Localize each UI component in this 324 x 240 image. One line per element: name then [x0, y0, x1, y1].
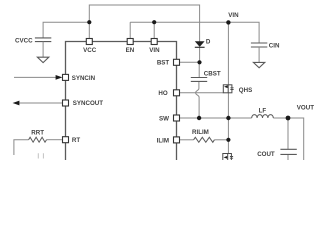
svg-text:SYNCIN: SYNCIN — [72, 75, 96, 82]
pin EN — [127, 39, 133, 45]
wire: EN-VIN input rail to CIN — [130, 22, 259, 43]
wire: VCC rail riser and top rail to diode — [89, 5, 199, 42]
inductor LF — [252, 115, 274, 118]
pin BST — [174, 59, 180, 65]
wire: VCC pin stub — [88, 22, 90, 38]
node: VIN pin junction — [152, 20, 156, 24]
faint strokes bottom-left (cut-off component) — [38, 153, 43, 158]
pin VCC — [86, 39, 92, 45]
node: VOUT — [286, 116, 291, 121]
wire: HO pin to QHS gate — [180, 92, 224, 94]
svg-text:VOUT: VOUT — [297, 104, 314, 111]
pin SYNCOUT — [63, 100, 69, 106]
capacitor CVCC — [35, 38, 51, 57]
wire: COUT bottom down — [287, 154, 289, 160]
wire: QHS source down to SW rail — [227, 93, 229, 118]
pin HO — [174, 90, 180, 96]
wire: inductor out to VOUT corner, down right edge — [273, 118, 303, 160]
svg-text:CBST: CBST — [204, 71, 221, 78]
IC U1 body outline — [66, 42, 177, 161]
wire: SW rail from pin to inductor — [180, 117, 252, 119]
wire: SYNCOUT output line — [19, 102, 62, 104]
resistor RRT — [29, 137, 47, 142]
svg-text:VCC: VCC — [83, 47, 97, 54]
node: BST — [197, 60, 201, 64]
wire: diode cathode to BST node — [199, 47, 201, 62]
svg-text:SYNCOUT: SYNCOUT — [73, 100, 103, 107]
wire: RRT left end down — [14, 140, 29, 155]
wire: BST pin to node — [180, 61, 200, 63]
wire: BST node down to CBST — [198, 62, 200, 77]
wire: RT pin to RRT — [47, 139, 62, 141]
capacitor COUT — [280, 149, 296, 154]
svg-text:RRT: RRT — [31, 129, 44, 136]
svg-text:RILIM: RILIM — [192, 129, 209, 136]
wire: CVCC top to VCC junction rail — [43, 22, 89, 38]
wire: SW rail down to QLS drain — [227, 118, 229, 154]
node: QHS source/SW — [226, 116, 230, 120]
wire: CBST bottom with hop over HO wire down to SW rail — [196, 81, 200, 118]
svg-text:LF: LF — [259, 107, 267, 114]
svg-text:HO: HO — [158, 90, 167, 97]
pin RT — [63, 137, 69, 143]
capacitor CBST — [191, 78, 207, 82]
svg-text:CVCC: CVCC — [15, 37, 33, 44]
svg-text:VIN: VIN — [149, 47, 160, 54]
arrowhead into SYNCIN — [56, 75, 63, 80]
wire: EN stub — [129, 22, 131, 38]
svg-text:D: D — [206, 39, 211, 46]
svg-text:ILIM: ILIM — [157, 138, 169, 145]
wire: RILIM to QLS drain node — [214, 139, 228, 141]
svg-text:QHS: QHS — [239, 87, 252, 94]
pin SW — [174, 115, 180, 121]
pin ILIM — [174, 137, 180, 143]
node: VIN net — [226, 20, 230, 24]
pin VIN — [151, 39, 157, 45]
wire: ILIM pin to RILIM — [180, 139, 194, 141]
wire: VIN node down to QHS drain — [227, 22, 229, 85]
resistor RILIM — [194, 137, 215, 142]
svg-text:VIN: VIN — [228, 12, 239, 19]
capacitor CIN — [251, 43, 267, 62]
transistor QLS (clipped at bottom) — [223, 154, 233, 162]
svg-text:SW: SW — [159, 116, 169, 123]
svg-text:COUT: COUT — [257, 151, 275, 158]
svg-text:CIN: CIN — [269, 43, 280, 50]
pin SYNCIN — [63, 74, 69, 80]
node: VCC junction — [87, 20, 91, 24]
ground (CIN) — [253, 62, 264, 67]
node: RILIM/QLS — [226, 138, 230, 142]
diode D — [195, 41, 205, 47]
wire: SYNCIN input line — [14, 76, 57, 78]
node: CBST/SW — [197, 116, 201, 120]
transistor QHS — [223, 85, 233, 93]
svg-text:BST: BST — [157, 60, 170, 67]
ground (CVCC) — [37, 57, 48, 62]
wire: VIN stub — [153, 22, 155, 38]
arrowhead out of SYNCOUT — [13, 101, 20, 106]
wire: VOUT node down to COUT — [287, 118, 289, 149]
svg-text:RT: RT — [72, 137, 80, 144]
svg-text:EN: EN — [126, 47, 135, 54]
